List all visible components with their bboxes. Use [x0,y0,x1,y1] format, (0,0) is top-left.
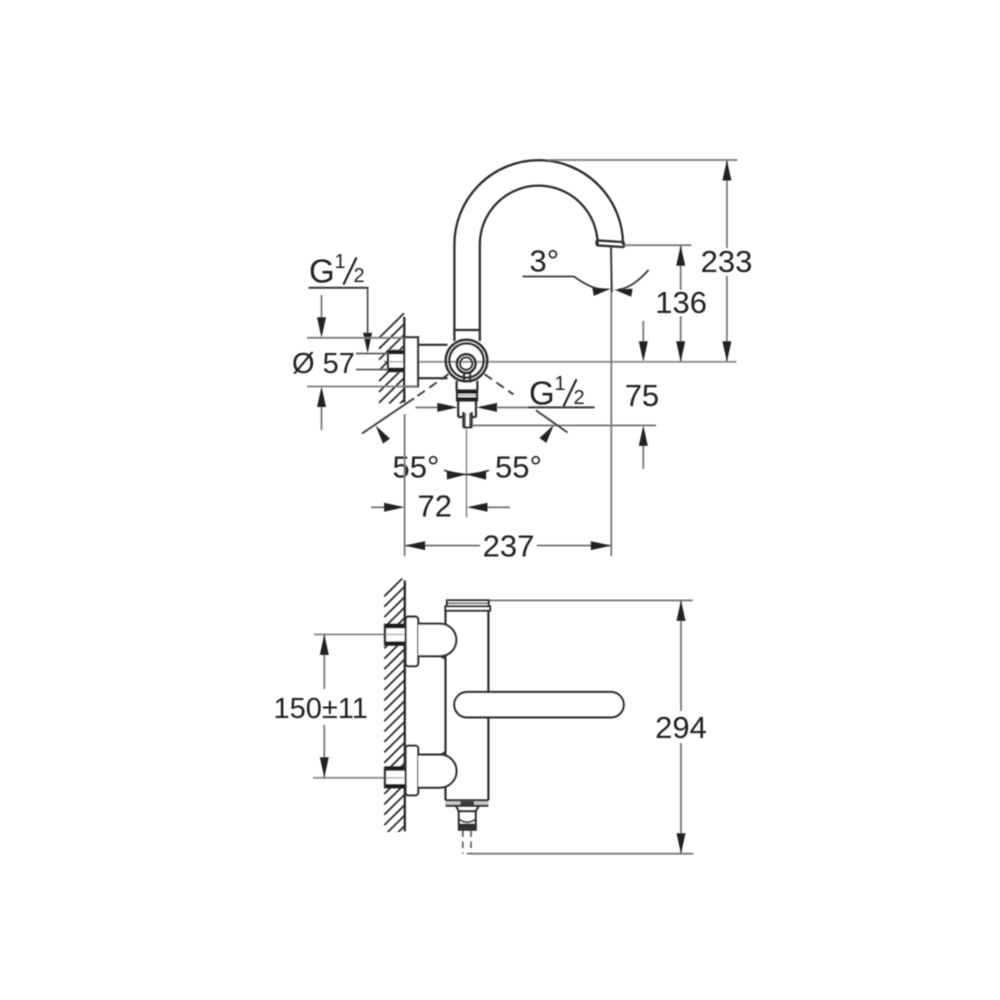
G1/2 label (wall supply) [309,251,373,353]
55 deg extension line left [362,398,414,433]
svg-text:1: 1 [555,373,566,395]
collar nut [457,391,477,401]
swivel range dashed line left [414,374,449,398]
upper union escutcheon [406,617,419,667]
G1/2 inlet pipe stub [387,350,404,373]
wall line bottom view [404,581,406,832]
svg-text:G: G [529,374,555,411]
svg-text:1: 1 [335,251,346,273]
valve body [446,340,488,383]
connection pipe to valve [418,345,448,378]
dimension 75 [625,321,659,469]
svg-text:Ø 57: Ø 57 [292,348,355,380]
dimension diameter 57 [292,295,418,430]
55 deg arc arrowheads [376,425,554,480]
svg-text:75: 75 [625,378,659,413]
G1/2 label (outlet) [416,373,595,412]
lever handle [454,692,623,717]
svg-text:3°: 3° [530,244,560,279]
dimension 237 [405,529,612,564]
outlet stem [458,401,476,418]
bottom outlet neck [456,806,479,812]
150 dim bottom extension / lower union centerline [313,777,404,779]
top extension line [548,159,737,161]
pipe stub extension lines [356,354,388,370]
svg-text:136: 136 [655,285,707,320]
55 deg label left [393,450,440,485]
horizontal centerline top view [384,361,737,363]
wall line top view [403,317,405,403]
svg-text:55°: 55° [393,450,440,485]
dimension 150 plus minus 11 [274,634,368,777]
svg-text:233: 233 [701,244,753,279]
svg-text:2: 2 [574,387,585,409]
svg-text:294: 294 [655,710,707,745]
spout tip level extension line [625,244,692,246]
294 bottom extension line [467,853,694,855]
vertical centerline below valve [466,429,468,518]
upper union pipe and ball [418,624,456,660]
body bottom face [446,800,489,806]
svg-text:237: 237 [483,529,535,564]
svg-text:72: 72 [418,489,452,524]
3 degree label and leader [523,244,649,297]
spout tip axis / right extension line [611,247,612,556]
svg-text:150±11: 150±11 [274,693,368,725]
gooseneck spout [454,160,624,341]
dimension 72 [371,489,510,524]
valve neck [457,381,478,391]
55 deg label right [495,450,542,485]
dimension 136 [655,245,707,362]
upper union nut [384,624,405,646]
left extension line (wall) for 72/237 [404,414,406,556]
svg-text:55°: 55° [495,450,542,485]
lower union pipe and ball [418,751,456,788]
294 top extension line [446,599,693,601]
svg-text:2: 2 [354,265,365,287]
outlet thread stub [463,412,472,428]
lower level extension line (75 bottom) [473,424,656,426]
150 dim top extension / upper union centerline [314,633,404,635]
faucet body cylinder [446,611,489,801]
spout joint line [454,329,479,331]
swivel range dashed line right [485,374,514,394]
lower union nut [384,767,405,789]
outlet axis dashed lines [463,831,471,854]
faucet body cap [445,600,490,610]
dimension 233 [701,160,753,362]
bottom outlet cylinder [459,811,476,829]
dimension 294 [655,600,707,853]
svg-text:G: G [309,253,335,290]
wall escutcheon top view [404,337,418,386]
lower union escutcheon [406,746,419,796]
55 deg extension line right [536,410,568,432]
